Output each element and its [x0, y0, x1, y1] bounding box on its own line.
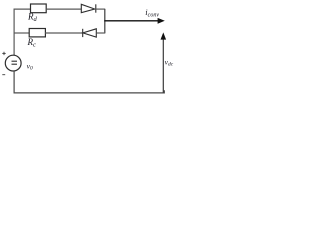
wire Rc to D2 — [45, 32, 82, 34]
plus sign — [2, 52, 5, 55]
wire left rail bottom — [14, 71, 164, 93]
diode D1 — [81, 4, 96, 12]
resistor Rd — [31, 4, 47, 13]
svg-text:iconv: iconv — [145, 7, 159, 18]
svg-text:vdc: vdc — [165, 57, 174, 67]
minus sign — [2, 74, 5, 76]
svg-text:Rc: Rc — [27, 37, 37, 49]
source v0 circle — [5, 55, 21, 71]
source v0 dc bars — [12, 61, 18, 64]
wire left rail to Rc — [14, 32, 29, 34]
diode D2 — [83, 29, 97, 37]
current arrow i_conv — [104, 18, 165, 24]
wire left rail top — [14, 9, 30, 55]
wire D2 to node — [96, 32, 105, 34]
node junction vertical wire — [104, 9, 106, 33]
wire D1 to node — [96, 8, 105, 10]
voltage arrow v_dc — [161, 32, 167, 92]
svg-text:v0: v0 — [27, 61, 33, 71]
wire Rd to D1 — [46, 8, 81, 10]
resistor Rc — [29, 29, 45, 37]
